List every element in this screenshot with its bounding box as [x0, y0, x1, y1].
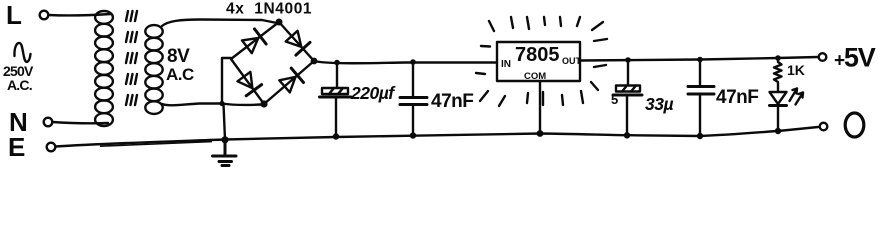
ground [213, 140, 237, 166]
terminal 0V [820, 123, 828, 131]
wire secondary bottom to node A [162, 104, 220, 106]
terminal +5V [819, 53, 827, 61]
diode D4 lower-right [279, 77, 295, 93]
wire secondary top to bridge top corner [162, 20, 277, 27]
node 0V rail at regulator COM [537, 130, 544, 137]
LED D5 [777, 83, 779, 91]
transformer core [126, 11, 137, 105]
capacitor C4 47nF lead top [699, 60, 701, 86]
bridge rectifier edges [231, 22, 314, 104]
capacitor C3 minus plate [613, 94, 642, 97]
capacitor C4 lead bottom [699, 95, 701, 137]
resistor R1 1K [774, 58, 782, 82]
node +5V rail at C3 top [625, 57, 631, 63]
bridge right corner dot [311, 58, 318, 65]
node 0V rail at C1 bottom [333, 133, 339, 139]
bridge bottom corner dot [260, 100, 267, 107]
capacitor C3 plus plate [616, 86, 640, 92]
svg-text:L: L [6, 0, 22, 30]
junction dot on 0V rail [221, 136, 228, 143]
regulator U1 7805 box [497, 42, 580, 81]
node 0V rail at C2 bottom [410, 132, 416, 138]
svg-text:A.C: A.C [166, 65, 194, 84]
regulator COM wire [539, 81, 541, 134]
terminal L [40, 11, 49, 20]
svg-text:220µf: 220µf [350, 83, 396, 103]
starburst emphasis around 7805 [476, 17, 607, 106]
terminal E [47, 143, 56, 152]
0V rail from E to output terminal [56, 127, 819, 147]
capacitor C1 minus plate [320, 96, 352, 99]
wire L to transformer primary [49, 14, 112, 15]
capacitor C2 47nF lead top [412, 62, 414, 97]
node 0V rail at C4 bottom [697, 133, 703, 139]
wire node A down to 0V rail [224, 104, 226, 140]
junction dot bottom of LED [775, 128, 781, 134]
diode D3 lower-left [238, 72, 253, 88]
LED light arrows [790, 89, 804, 105]
svg-text:47nF: 47nF [716, 87, 758, 108]
node unregulated rail at C2 top [410, 59, 416, 65]
capacitor C2 lead bottom [412, 105, 414, 136]
wire N to transformer primary [53, 122, 109, 123]
svg-text:4x 1N4001: 4x 1N4001 [226, 1, 312, 18]
wire bridge left corner to node A [222, 58, 231, 103]
bridge top corner dot [276, 19, 283, 26]
capacitor C3 lead bottom [626, 96, 628, 137]
AC waveform symbol [14, 43, 30, 62]
node 0V rail at C3 bottom [624, 132, 630, 138]
capacitor C1 lead bottom [335, 98, 337, 138]
node +5V rail at C4 top [697, 57, 703, 63]
svg-text:1K: 1K [787, 62, 805, 78]
diode D2 upper-right [286, 31, 302, 47]
+5V rail from regulator output [580, 57, 818, 61]
svg-text:47nF: 47nF [431, 91, 473, 112]
svg-text:8V: 8V [167, 46, 190, 67]
wire retrace on 0V rail [100, 142, 212, 147]
svg-text:IN: IN [501, 59, 511, 70]
svg-text:E: E [8, 132, 25, 162]
svg-text:7805: 7805 [515, 44, 560, 66]
node A junction [219, 101, 224, 106]
node unregulated rail at C1 top [334, 60, 340, 66]
svg-text:33µ: 33µ [645, 94, 673, 114]
capacitor C4 plates [688, 85, 714, 88]
transformer primary winding [95, 11, 113, 126]
capacitor C1 plus plate [322, 88, 348, 94]
diode D1 upper-left [242, 38, 258, 53]
svg-text:COM: COM [524, 71, 546, 82]
transformer secondary winding [145, 25, 162, 114]
svg-text:A.C.: A.C. [7, 77, 32, 93]
capacitor C1 220uF lead top [336, 63, 338, 88]
svg-text:OUT: OUT [562, 56, 582, 66]
wire node A to bridge bottom corner [222, 104, 262, 105]
capacitor C3 33uF lead top [627, 60, 629, 84]
capacitor C2 plates [400, 96, 427, 99]
junction dot top of resistor [775, 55, 781, 61]
label O [845, 113, 864, 137]
terminal N [44, 118, 53, 127]
wire bridge right corner to regulator input rail [314, 61, 497, 63]
